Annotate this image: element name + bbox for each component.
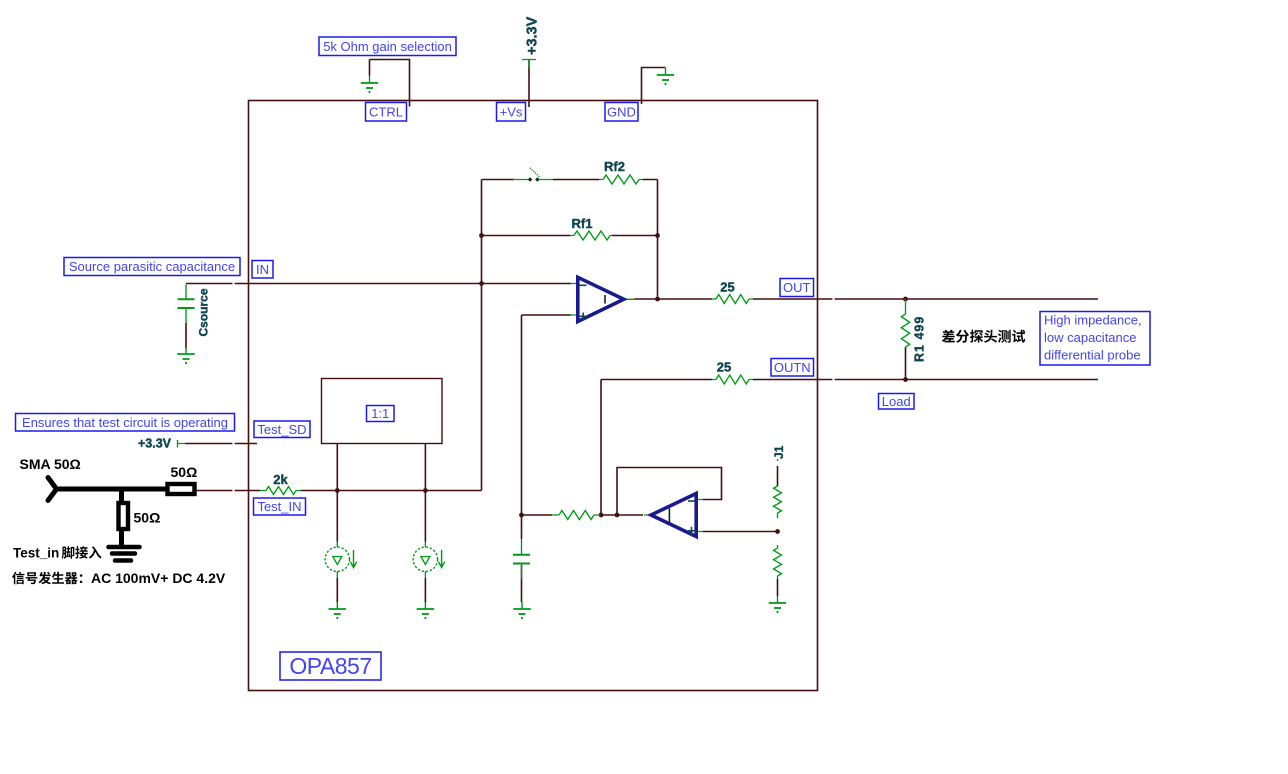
svg-text:Test_SD: Test_SD [257,422,306,437]
svg-text:50Ω: 50Ω [134,510,161,526]
svg-text:High impedance,: High impedance, [1044,313,1142,328]
svg-text:OPA857: OPA857 [289,653,371,679]
svg-text:differential probe: differential probe [1044,348,1141,363]
svg-text:CTRL: CTRL [369,104,403,119]
svg-text:OUTN: OUTN [774,360,811,375]
svg-text:1:1: 1:1 [371,406,389,421]
svg-text:Source parasitic capacitance: Source parasitic capacitance [69,259,235,274]
svg-text:2k: 2k [273,472,288,487]
svg-text:25: 25 [717,360,731,375]
svg-text:R1 499: R1 499 [913,316,927,362]
svg-text:Rf1: Rf1 [572,216,593,231]
svg-text:Ensures that test circuit is o: Ensures that test circuit is operating [22,415,228,430]
svg-text:+3.3V: +3.3V [138,437,172,451]
svg-text:50Ω: 50Ω [171,464,198,480]
svg-text:AC 100mV+ DC 4.2V: AC 100mV+ DC 4.2V [91,570,226,586]
svg-text:SMA 50Ω: SMA 50Ω [20,456,81,472]
svg-text:+Vs: +Vs [500,104,523,119]
svg-text:25: 25 [720,280,734,295]
svg-text:+3.3V: +3.3V [525,16,541,55]
svg-text:Test_in: Test_in [13,546,59,561]
svg-text:OUT: OUT [783,280,811,295]
svg-text:GND: GND [607,104,636,119]
svg-text:Load: Load [882,394,911,409]
svg-text:Test_IN: Test_IN [257,499,301,514]
svg-text:low capacitance: low capacitance [1044,330,1137,345]
svg-text:Rf2: Rf2 [604,159,625,174]
svg-text:Csource: Csource [197,288,211,336]
svg-text:IN: IN [256,262,269,277]
svg-text:5k Ohm gain selection: 5k Ohm gain selection [323,39,452,54]
svg-text:J1: J1 [772,445,786,459]
